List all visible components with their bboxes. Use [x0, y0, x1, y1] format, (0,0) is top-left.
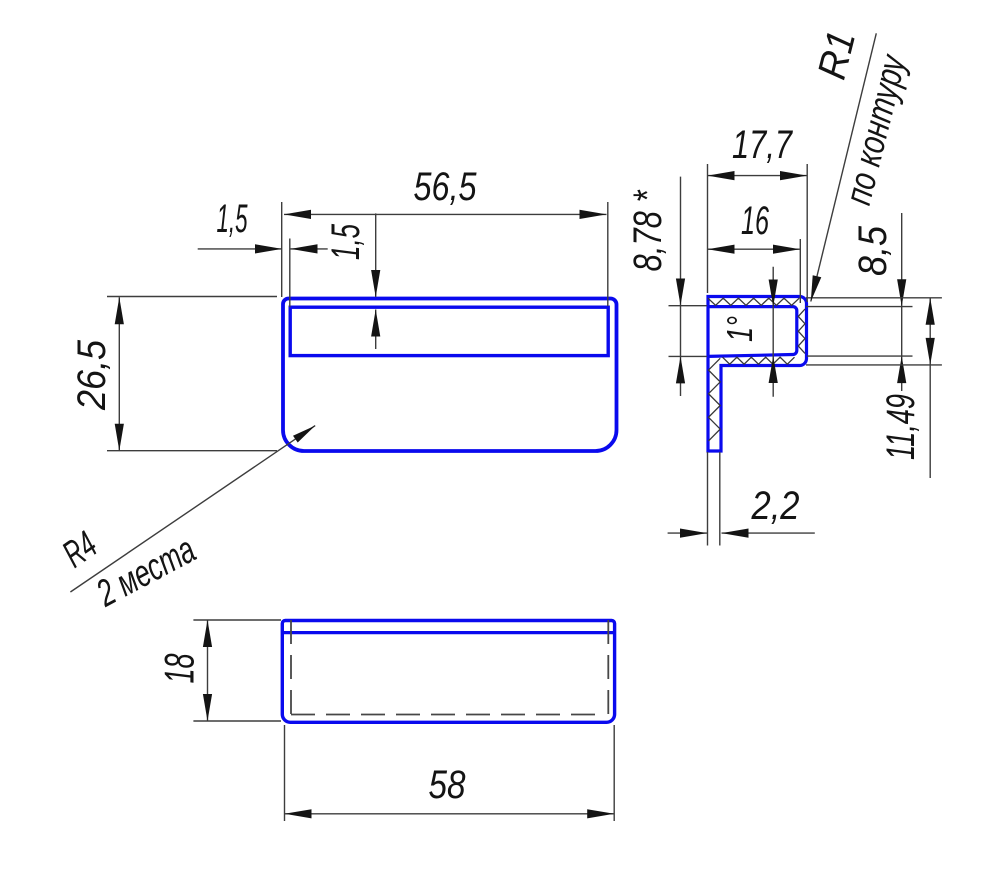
dim 18 lines	[193, 620, 281, 721]
dim 11,49 line	[929, 298, 931, 478]
section hatch: right wall	[798, 309, 805, 353]
leader R4 line	[70, 426, 315, 592]
dim 58 arrows	[285, 809, 312, 818]
dim 17,7 arrows	[708, 171, 735, 180]
dim 26,5 lines	[107, 297, 277, 451]
section hatch: left leg	[709, 358, 721, 441]
dim 1,5 rotated: lines	[375, 213, 377, 349]
svg-text:R4: R4	[55, 524, 104, 576]
svg-text:2,2: 2,2	[751, 484, 800, 528]
section: groove inner contour	[708, 307, 797, 357]
dim 1,5 left: lines	[198, 239, 328, 308]
svg-text:1°: 1°	[719, 316, 760, 342]
bottom view: inner edge line	[284, 631, 613, 634]
svg-text:26,5: 26,5	[70, 339, 114, 411]
dim 11,49 arrows	[926, 298, 935, 325]
dim 8,5 line	[901, 213, 903, 391]
leader R1 line	[811, 33, 877, 301]
dim 2,2 lines	[668, 452, 815, 546]
main view: outer contour	[283, 299, 617, 452]
section hatch: top wall	[708, 298, 799, 305]
svg-text:18: 18	[156, 653, 203, 683]
svg-text:16: 16	[741, 199, 769, 243]
svg-text:1,5: 1,5	[217, 197, 248, 241]
dim 2,2 arrows	[680, 529, 707, 538]
dim 16 lines	[708, 239, 801, 303]
bottom view: hidden slot dashed	[291, 620, 608, 715]
dim 8,78* arrows	[676, 279, 685, 306]
dim 56,5 arrows	[284, 210, 311, 219]
groove center dim line	[772, 267, 774, 397]
dim 18 arrows	[203, 620, 212, 647]
svg-text:17,7: 17,7	[732, 123, 793, 167]
leader R4 arrow	[293, 426, 315, 443]
dim 26,5 arrows	[115, 297, 124, 324]
svg-text:8,5: 8,5	[851, 225, 895, 276]
section: outer contour	[708, 297, 807, 452]
section hatch: bottom wall	[723, 357, 795, 364]
dim 58 lines	[285, 725, 615, 821]
groove center arrows	[769, 280, 778, 307]
dim 8,78* lines	[669, 177, 708, 396]
dim 1,5 left arrows	[255, 244, 282, 253]
dim 56,5 extension lines	[282, 202, 608, 306]
dim 16 arrows	[708, 245, 735, 254]
main view: slot	[290, 307, 608, 355]
dim 8,5 arrows	[897, 279, 906, 306]
svg-text:8,78 *: 8,78 *	[626, 189, 670, 271]
svg-text:R1: R1	[810, 26, 864, 83]
bottom view: outer contour	[282, 621, 614, 723]
svg-text:1,5: 1,5	[324, 224, 368, 260]
svg-text:2 места: 2 места	[89, 529, 202, 616]
svg-text:11,49: 11,49	[879, 394, 923, 460]
section right extension lines	[806, 298, 942, 365]
dim 1,5 rotated arrows	[371, 270, 380, 297]
leader R1 arrow	[811, 275, 822, 301]
dim 17,7 lines	[708, 164, 808, 302]
svg-text:58: 58	[429, 763, 467, 807]
svg-text:56,5: 56,5	[414, 165, 478, 209]
